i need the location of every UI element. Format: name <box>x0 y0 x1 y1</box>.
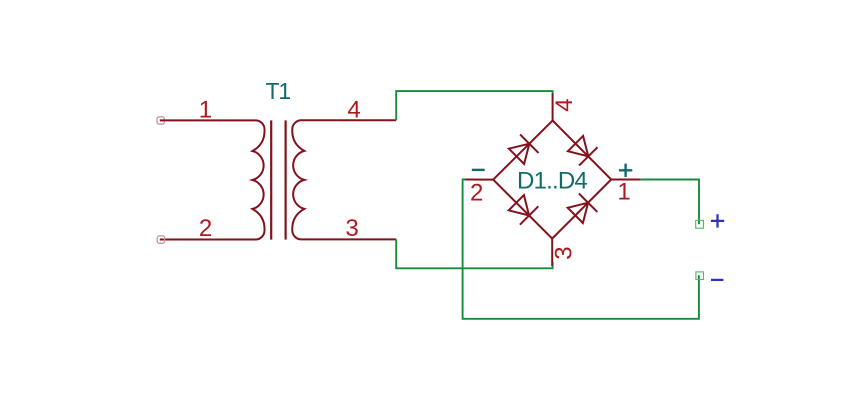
wire: bridge minus (pin2) to minus terminal <box>463 180 699 319</box>
svg-text:4: 4 <box>347 96 360 123</box>
diode D4 (lower-right) <box>568 203 588 223</box>
bridge minus sign (teal) <box>472 169 485 171</box>
svg-text:1: 1 <box>617 179 630 206</box>
wire: transformer pin3 to bridge bottom <box>396 239 552 268</box>
bridge plus sign (teal) <box>619 164 632 177</box>
transformer core <box>270 120 272 239</box>
diode D1 (upper-left) <box>509 144 529 164</box>
bridge pin 4 line (top) <box>552 94 554 121</box>
svg-text:D1..D4: D1..D4 <box>517 167 587 194</box>
plus terminal label (blue) <box>711 214 724 227</box>
svg-text:2: 2 <box>199 215 212 242</box>
diode D2 (upper-right) <box>568 136 588 157</box>
pin 1 line and primary winding <box>160 120 265 239</box>
transformer T1 <box>157 78 396 243</box>
svg-text:1: 1 <box>199 96 212 123</box>
diode D3 (lower-left) <box>509 195 529 215</box>
diode bridge D1..D4 <box>465 94 640 267</box>
pin 2 open circle <box>157 236 164 243</box>
svg-text:3: 3 <box>345 215 358 242</box>
wire: transformer pin4 to bridge top <box>396 91 552 120</box>
svg-text:2: 2 <box>470 180 483 207</box>
bridge pin 1 line (right) <box>611 179 640 181</box>
bridge pin 2 line (left) <box>465 179 493 181</box>
bridge pin 3 line (bottom) <box>551 239 553 266</box>
minus terminal unconnected square <box>696 272 704 280</box>
svg-text:4: 4 <box>551 98 578 111</box>
minus terminal label (blue) <box>711 279 723 281</box>
wire: bridge plus (pin1) to plus terminal <box>640 180 699 225</box>
pin 4 line and secondary winding <box>292 120 396 239</box>
svg-text:3: 3 <box>551 246 578 259</box>
svg-text:T1: T1 <box>265 78 290 104</box>
plus terminal unconnected square <box>696 220 704 228</box>
bridge diamond outline <box>493 121 611 239</box>
pin 1 open circle <box>157 117 164 124</box>
